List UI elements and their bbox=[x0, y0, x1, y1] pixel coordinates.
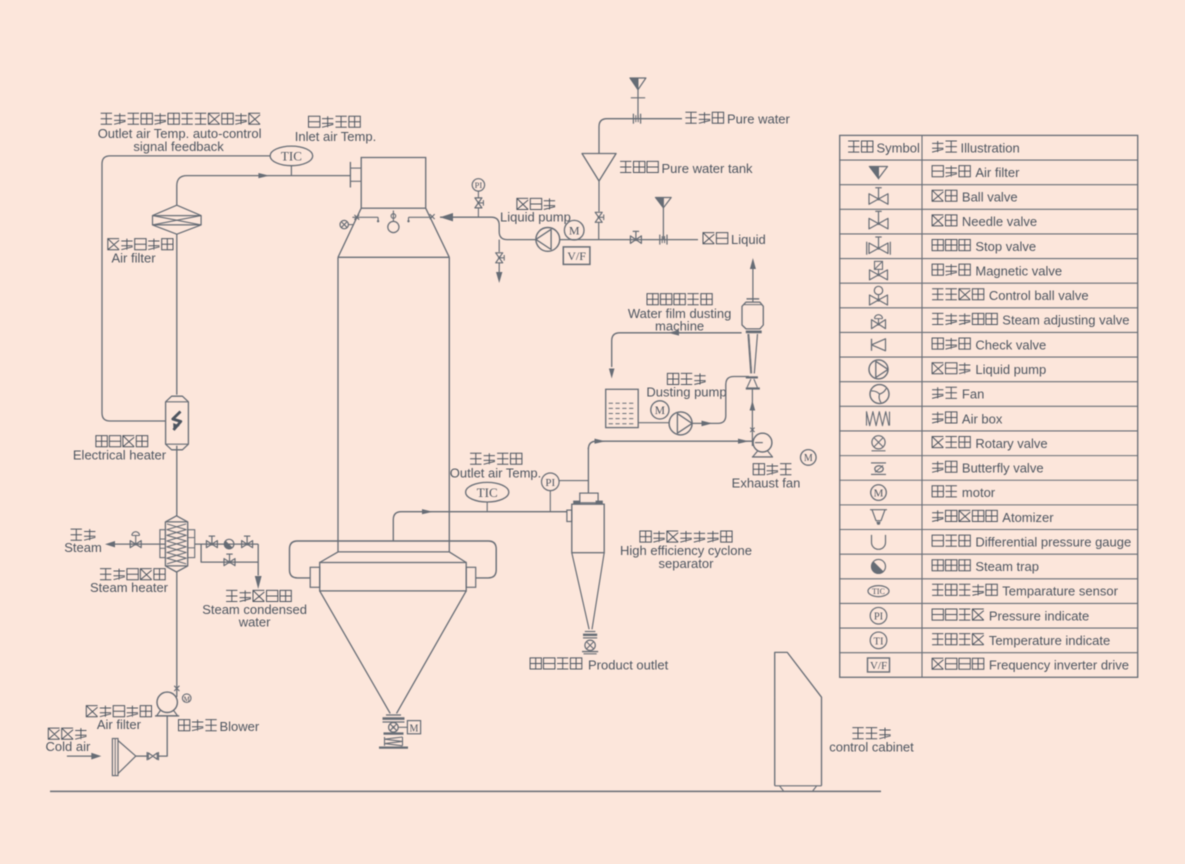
label: pure water tank bbox=[620, 161, 753, 176]
wire: blower suction line bbox=[158, 716, 167, 756]
legend symbol: needle valve bbox=[869, 211, 888, 229]
svg-text:Dusting pump: Dusting pump bbox=[646, 385, 726, 400]
svg-text:TIC: TIC bbox=[477, 485, 498, 500]
wire: cyclone to exhaust fan bbox=[588, 439, 762, 450]
legend symbol: air box bbox=[867, 412, 890, 426]
air box fitting on pure water line bbox=[633, 114, 640, 124]
svg-text:Liquid pump: Liquid pump bbox=[975, 362, 1046, 377]
svg-text:Inlet air Temp.: Inlet air Temp. bbox=[295, 129, 376, 144]
air box fitting on liquid line bbox=[660, 235, 667, 245]
svg-text:Liquid: Liquid bbox=[731, 232, 766, 247]
svg-text:M: M bbox=[569, 224, 580, 238]
svg-text:control cabinet: control cabinet bbox=[829, 740, 914, 755]
legend symbol: magnetic valve bbox=[870, 261, 888, 280]
legend text row 1: Air filter bbox=[932, 165, 1020, 180]
needle valve on tank outlet bbox=[595, 212, 604, 239]
steam adjusting valve on steam inlet bbox=[105, 532, 165, 548]
svg-text:Steam adjusting valve: Steam adjusting valve bbox=[1002, 313, 1129, 328]
air filter (hexagon lens) on inlet duct bbox=[153, 205, 202, 234]
V/F frequency drive box bbox=[563, 247, 590, 265]
svg-text:motor: motor bbox=[962, 485, 996, 500]
svg-text:M: M bbox=[184, 696, 191, 704]
svg-text:Steam: Steam bbox=[64, 540, 102, 555]
wire: tank to dusting pump bbox=[638, 422, 669, 424]
svg-text:Control ball valve: Control ball valve bbox=[989, 288, 1089, 303]
svg-text:Illustration: Illustration bbox=[961, 140, 1020, 155]
svg-text:Pure water: Pure water bbox=[727, 112, 791, 127]
liquid inlet funnel filter bbox=[656, 198, 672, 240]
svg-text:Rotary valve: Rotary valve bbox=[975, 436, 1047, 451]
instrument TIC2 outlet air temp bbox=[466, 482, 509, 511]
svg-text:PI: PI bbox=[545, 477, 555, 489]
valve at blower suction bbox=[136, 752, 159, 760]
wire: filter to electrical heater bbox=[176, 234, 178, 395]
label: air filter (upper) bbox=[108, 239, 173, 266]
electrical heater E1 bbox=[166, 396, 189, 450]
instrument PI1 pressure indicator at tower inlet bbox=[472, 179, 484, 198]
legend text row 17: Steam trap bbox=[932, 559, 1039, 574]
svg-text:M: M bbox=[410, 723, 419, 734]
svg-text:Fan: Fan bbox=[962, 387, 984, 402]
condensate line with ball valves and steam trap bbox=[195, 536, 259, 575]
exhaust fan bbox=[752, 433, 773, 457]
blower B1 bbox=[155, 692, 191, 716]
instrument PI2 pressure indicator bbox=[542, 473, 589, 512]
svg-text:Pure water tank: Pure water tank bbox=[662, 161, 754, 176]
control cabinet bbox=[775, 652, 822, 791]
rotary valve on left shoulder bbox=[340, 215, 359, 229]
legend text row 7: Steam adjusting valve bbox=[932, 313, 1129, 328]
label: blower bbox=[179, 719, 260, 734]
svg-text:Check valve: Check valve bbox=[975, 337, 1046, 352]
label: electrical heater bbox=[73, 436, 167, 463]
legend symbol: temperature sensor bbox=[868, 586, 889, 597]
legend symbol: steam adjusting valve bbox=[872, 315, 886, 329]
label: cold air bbox=[46, 728, 91, 754]
ball valve on liquid line bbox=[630, 231, 641, 243]
steam heater HX1 bbox=[160, 516, 195, 572]
svg-text:Temperature indicate: Temperature indicate bbox=[989, 633, 1110, 648]
liquid pump P1 bbox=[536, 228, 560, 252]
legend symbol: butterfly valve bbox=[871, 463, 886, 475]
legend symbol: air filter bbox=[870, 167, 888, 179]
svg-text:Pressure indicate: Pressure indicate bbox=[989, 608, 1089, 623]
legend text row 13: Butterfly valve bbox=[932, 461, 1043, 476]
legend text row 3: Needle valve bbox=[932, 214, 1037, 229]
legend text row 15: Atomizer bbox=[932, 510, 1054, 525]
svg-text:TIC: TIC bbox=[281, 149, 302, 164]
svg-text:machine: machine bbox=[655, 318, 704, 333]
legend symbol: rotary valve bbox=[872, 436, 886, 451]
legend symbol: pressure indicate bbox=[870, 607, 887, 624]
svg-text:Liquid pump: Liquid pump bbox=[500, 209, 571, 224]
wire: liquid supply line bbox=[560, 239, 698, 241]
legend text row 4: Stop valve bbox=[932, 239, 1036, 254]
svg-text:TI: TI bbox=[874, 636, 884, 647]
svg-text:Ball valve: Ball valve bbox=[962, 190, 1018, 205]
legend symbol: steam trap bbox=[872, 559, 886, 573]
tower bottom band with flange tabs bbox=[310, 552, 476, 591]
label: air filter (blower) bbox=[86, 706, 151, 732]
label: exhaust fan bbox=[732, 464, 801, 491]
svg-text:Butterfly valve: Butterfly valve bbox=[962, 461, 1044, 476]
pure water funnel filter bbox=[630, 78, 646, 119]
valve and liquid inlet arrow on right shoulder bbox=[430, 213, 453, 221]
label: dusting pump bbox=[646, 373, 726, 399]
svg-text:Magnetic valve: Magnetic valve bbox=[975, 263, 1062, 278]
water tank bbox=[606, 389, 639, 427]
svg-text:Steam trap: Steam trap bbox=[975, 559, 1039, 574]
wire: pure water line bbox=[599, 119, 682, 154]
svg-text:Electrical heater: Electrical heater bbox=[73, 448, 167, 463]
legend text row 9: Liquid pump bbox=[932, 362, 1046, 377]
label: outlet air temp auto-control feedback bbox=[98, 113, 262, 154]
label: product outlet bbox=[530, 657, 669, 672]
wire: steam heater to blower bbox=[174, 572, 179, 697]
legend text row 20: Temperature indicate bbox=[932, 633, 1110, 648]
label: steam bbox=[64, 529, 102, 555]
label: cyclone separator bbox=[620, 531, 752, 571]
cold air arrow bbox=[67, 753, 101, 760]
legend symbol: liquid pump bbox=[869, 360, 888, 379]
label: outlet air temp bbox=[450, 453, 542, 480]
legend text row 8: Check valve bbox=[932, 337, 1046, 352]
svg-text:Steam heater: Steam heater bbox=[90, 580, 169, 595]
instrument TIC1 inlet-air temperature controller bbox=[270, 146, 313, 176]
arrow: condensate down bbox=[255, 576, 262, 589]
legend symbol: motor bbox=[871, 485, 887, 501]
svg-text:Symbol: Symbol bbox=[877, 140, 920, 155]
tower body bbox=[338, 257, 449, 552]
svg-text:Blower: Blower bbox=[220, 719, 260, 734]
svg-text:Cold air: Cold air bbox=[46, 739, 91, 754]
drying tower top box with inlet flange bbox=[350, 158, 425, 209]
wire: TIC feedback signal line bbox=[102, 156, 270, 421]
arrow: exhaust to atmosphere bbox=[750, 258, 756, 269]
branch: drain with needle valve and arrow bbox=[496, 240, 505, 283]
svg-text:water: water bbox=[238, 615, 271, 630]
water film dusting machine bbox=[742, 268, 763, 389]
svg-text:PI: PI bbox=[475, 180, 483, 190]
motor M of exhaust fan bbox=[801, 450, 817, 466]
pure water tank funnel bbox=[582, 154, 616, 212]
motor M of dusting pump bbox=[651, 401, 669, 419]
svg-text:Stop valve: Stop valve bbox=[975, 239, 1036, 254]
svg-text:Atomizer: Atomizer bbox=[1002, 510, 1054, 525]
label: liquid bbox=[703, 232, 766, 247]
legend symbol: ball valve bbox=[869, 188, 888, 205]
svg-text:M: M bbox=[655, 405, 665, 417]
wire: heater to steam heater bbox=[176, 446, 178, 516]
label: steam condensed water bbox=[202, 590, 307, 629]
wire: water circulation line to tank bbox=[609, 330, 742, 379]
svg-text:Air box: Air box bbox=[962, 411, 1003, 426]
legend text row 11: Air box bbox=[932, 411, 1003, 426]
legend header bbox=[848, 140, 1020, 155]
legend text row 19: Pressure indicate bbox=[932, 608, 1089, 623]
label: steam heater bbox=[90, 569, 169, 596]
label: water film dusting machine bbox=[628, 294, 732, 334]
ground line bbox=[50, 790, 881, 792]
cyclone inlet flange bbox=[567, 510, 572, 521]
svg-text:Differential pressure gauge: Differential pressure gauge bbox=[975, 534, 1131, 549]
svg-text:TIC: TIC bbox=[872, 587, 885, 596]
svg-text:separator: separator bbox=[659, 556, 715, 571]
svg-text:Needle valve: Needle valve bbox=[962, 214, 1037, 229]
svg-text:Temparature sensor: Temparature sensor bbox=[1002, 584, 1118, 599]
legend symbol: frequency inverter drive bbox=[868, 658, 890, 672]
svg-text:Outlet air Temp.: Outlet air Temp. bbox=[450, 465, 542, 480]
svg-text:M: M bbox=[804, 453, 813, 464]
legend text row 6: Control ball valve bbox=[932, 288, 1088, 303]
dusting pump bbox=[669, 412, 692, 435]
wire: inlet air pipe to tower bbox=[177, 173, 351, 205]
tower shoulder (upper cone) bbox=[338, 208, 449, 257]
legend text row 12: Rotary valve bbox=[932, 436, 1048, 451]
tower cone discharge: flange, rotary valve, motor box, bellows bbox=[379, 715, 421, 748]
svg-text:Air filter: Air filter bbox=[97, 717, 142, 732]
tower cone bbox=[320, 591, 467, 714]
wire: liquid pipe from pump to tower bbox=[440, 217, 536, 239]
label: inlet air temp bbox=[295, 116, 376, 144]
svg-text:Exhaust fan: Exhaust fan bbox=[732, 475, 801, 490]
wire: fan to water film machine bbox=[750, 388, 756, 447]
cyclone discharge: flange and rotary valve bbox=[582, 632, 598, 654]
legend symbol: atomizer bbox=[870, 510, 887, 525]
tower outlet manifold ring bbox=[290, 541, 497, 578]
legend text row 14: motor bbox=[932, 485, 996, 500]
air filter cone at blower inlet bbox=[112, 739, 135, 776]
svg-text:V/F: V/F bbox=[567, 249, 586, 263]
high efficiency cyclone separator bbox=[572, 447, 604, 629]
svg-text:Frequency inverter drive: Frequency inverter drive bbox=[989, 658, 1129, 673]
svg-text:Air filter: Air filter bbox=[111, 250, 156, 265]
legend text row 16: Differential pressure gauge bbox=[932, 534, 1131, 549]
legend text row 21: Frequency inverter drive bbox=[932, 658, 1129, 673]
legend symbol: control ball valve bbox=[870, 286, 888, 305]
needle valve below PI1 bbox=[475, 198, 484, 217]
motor M of liquid pump bbox=[564, 220, 584, 240]
label: pure water bbox=[685, 112, 790, 127]
legend text row 5: Magnetic valve bbox=[932, 263, 1062, 278]
svg-text:signal feedback: signal feedback bbox=[133, 139, 224, 154]
legend text row 10: Fan bbox=[932, 387, 984, 402]
wire: dusting pump discharge to venturi bbox=[692, 377, 749, 427]
legend symbol: fan bbox=[870, 385, 889, 404]
svg-text:M: M bbox=[874, 488, 884, 500]
label: liquid pump bbox=[500, 198, 571, 224]
legend symbol: temperature indicate bbox=[870, 632, 887, 649]
wire: tower outlet pipe to cyclone bbox=[393, 509, 567, 541]
atomizer at tower top bbox=[352, 211, 432, 233]
legend symbol: stop valve bbox=[867, 237, 891, 255]
legend symbol: differential pressure gauge bbox=[872, 535, 886, 550]
svg-text:V/F: V/F bbox=[870, 660, 887, 672]
legend symbol: check valve bbox=[872, 339, 886, 351]
condensate bypass line with ball valve bbox=[201, 544, 258, 566]
legend table frame bbox=[840, 135, 1138, 677]
legend text row 2: Ball valve bbox=[932, 190, 1017, 205]
legend text row 18: Temparature sensor bbox=[932, 584, 1118, 599]
svg-text:Air filter: Air filter bbox=[975, 165, 1020, 180]
svg-text:Product outlet: Product outlet bbox=[588, 657, 669, 672]
svg-text:PI: PI bbox=[874, 612, 884, 623]
label: control cabinet bbox=[829, 728, 914, 755]
